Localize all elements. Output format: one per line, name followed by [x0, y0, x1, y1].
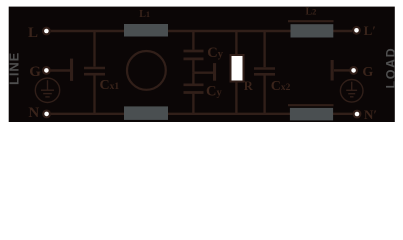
filter case panel	[9, 7, 395, 122]
choke L1 core circle	[127, 51, 166, 90]
choke L2 core line top	[288, 20, 334, 22]
terminal L	[42, 27, 51, 36]
svg-text:G: G	[29, 64, 41, 80]
svg-text:G: G	[362, 65, 373, 80]
resistor R	[231, 31, 244, 114]
capacitor Cx1	[84, 31, 105, 114]
choke L2 winding bottom	[290, 108, 333, 121]
wire G left	[50, 69, 70, 71]
terminal G right	[349, 66, 358, 75]
ground earth symbol right	[340, 80, 363, 103]
wire L top line	[51, 30, 352, 32]
svg-text:R: R	[244, 79, 254, 93]
svg-text:LINE: LINE	[7, 52, 22, 85]
terminal N	[42, 110, 51, 119]
capacitor Cy bottom	[184, 73, 204, 114]
terminal N'	[353, 110, 362, 119]
chassis bar middle (case stub)	[213, 63, 216, 81]
terminal L'	[352, 26, 361, 35]
wire Cy midpoint to case stub	[193, 71, 213, 73]
chassis bar right (G)	[331, 60, 334, 81]
svg-text:L: L	[28, 25, 38, 41]
choke L2 winding top	[291, 24, 334, 37]
svg-text:N: N	[28, 105, 39, 121]
svg-text:N′: N′	[364, 107, 377, 122]
wire N bottom line	[51, 113, 353, 115]
capacitor Cx2	[254, 31, 275, 114]
wire G right	[334, 69, 350, 71]
choke L1 winding top	[124, 24, 168, 37]
svg-text:LOAD: LOAD	[384, 47, 398, 89]
svg-text:L2: L2	[306, 7, 317, 18]
choke L1 winding bottom	[124, 106, 168, 120]
svg-text:L1: L1	[139, 9, 150, 20]
terminal G left	[42, 66, 51, 75]
svg-text:L′: L′	[364, 23, 376, 38]
ground earth symbol left	[35, 78, 59, 102]
capacitor Cy top	[184, 31, 204, 73]
chassis bar left (G)	[70, 59, 73, 81]
choke L2 core line bottom	[288, 104, 334, 106]
